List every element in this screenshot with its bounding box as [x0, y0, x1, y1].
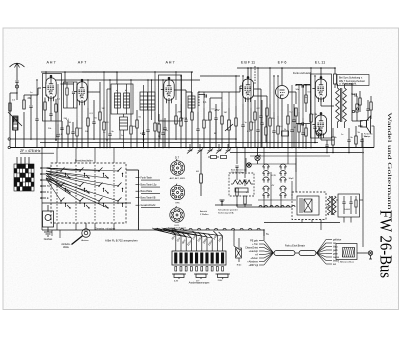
- svg-text:A F 7: A F 7: [78, 61, 87, 65]
- band table ticks: [17, 157, 29, 164]
- svg-text:1M: 1M: [79, 128, 82, 130]
- tone components right: [351, 91, 361, 112]
- bias network R2 C3: [45, 120, 75, 147]
- tube V4 EBF11: [239, 77, 253, 103]
- top feeder junctions: [36, 67, 315, 80]
- band table block: [14, 164, 34, 191]
- input coupling network: [9, 93, 18, 147]
- extra drop d3: [356, 96, 358, 121]
- legend note box: [337, 75, 369, 86]
- connector box: [336, 244, 357, 260]
- extra component X7: [146, 110, 149, 148]
- switch contacts: [60, 168, 123, 208]
- bandfilter box Bf1: [43, 74, 62, 122]
- svg-text:Antrieb: Antrieb: [200, 210, 208, 213]
- fuse symbols: [208, 156, 227, 159]
- IF transformer Bf2: [107, 84, 133, 147]
- wire top HT rail: [237, 67, 335, 69]
- svg-text:Erde: Erde: [237, 264, 242, 267]
- svg-text:E L 11: E L 11: [315, 61, 325, 65]
- psu line lugs: [259, 206, 295, 208]
- mid IF components: [106, 110, 166, 147]
- voltage divider resistor bank: [172, 251, 226, 265]
- tuning drive wheel: [72, 223, 91, 245]
- extra component X4: [103, 100, 105, 148]
- svg-text:Gemeins. mit achse: Gemeins. mit achse: [95, 227, 116, 230]
- left rail terminals: [8, 138, 10, 149]
- svg-text:6,3V: 6,3V: [174, 281, 179, 283]
- extra component X11: [196, 112, 199, 148]
- output stage box: [311, 74, 332, 138]
- svg-text:3 Wellen: 3 Wellen: [200, 214, 209, 216]
- components under V5: [282, 68, 297, 147]
- volume control and AF coupling: [199, 86, 243, 196]
- extra component X5: [108, 114, 111, 148]
- mains unit: [297, 196, 319, 215]
- svg-text:2x600: 2x600: [344, 209, 351, 211]
- junction dots: [41, 67, 364, 153]
- svg-text:6,3V: 6,3V: [257, 155, 262, 157]
- relay with meter: [43, 205, 54, 236]
- svg-text:EL11: EL11: [175, 225, 181, 227]
- switch solid bar: [42, 202, 131, 204]
- waveband switch box: [51, 163, 126, 223]
- components under V4: [248, 66, 263, 147]
- wire screen rail: [296, 84, 311, 86]
- svg-text:Buss.Platte: Buss.Platte: [141, 190, 153, 193]
- IF transformer Bf3: [140, 80, 155, 147]
- svg-text:Schutzleiter geerdet: Schutzleiter geerdet: [218, 209, 238, 212]
- dial lamp 2: [247, 163, 252, 168]
- ground brackets: [172, 274, 230, 279]
- svg-text:Netztast: Netztast: [44, 238, 53, 241]
- wire V1 to V2: [61, 72, 74, 84]
- heater sockets: [263, 164, 286, 198]
- svg-text:TA: TA: [47, 185, 50, 188]
- diode load resistors: [253, 96, 268, 147]
- svg-text:Funk-Taste: Funk-Taste: [141, 177, 153, 180]
- svg-text:E F 6: E F 6: [278, 61, 287, 65]
- plug lamp: [357, 251, 373, 259]
- extra component X25: [332, 128, 334, 153]
- tube socket diagram 3: [170, 206, 184, 222]
- svg-text:Funk und Hand: Funk und Hand: [293, 71, 311, 75]
- extra component X8: [154, 112, 156, 148]
- harness left fan: [259, 241, 274, 266]
- svg-text:6,3V: 6,3V: [272, 175, 277, 177]
- tuning capacitor gang: [187, 144, 231, 154]
- svg-text:Bereichsschalter: Bereichsschalter: [75, 160, 93, 163]
- extra component X12: [203, 108, 205, 148]
- detector coil: [188, 72, 195, 112]
- tube V7 EL11 lower: [312, 113, 326, 139]
- coupling caps to EL tubes: [296, 84, 310, 125]
- extra component X21: [301, 118, 304, 148]
- svg-text:2M: 2M: [28, 96, 32, 100]
- speaker network: [355, 126, 364, 147]
- extra component X1: [35, 95, 38, 147]
- earth wire row: [215, 200, 252, 206]
- svg-text:D.7: D.7: [175, 156, 180, 160]
- wire top rail 2: [55, 79, 200, 81]
- extra component X22: [310, 100, 312, 148]
- terminal column: [40, 167, 46, 199]
- tube V5 EF6: [276, 80, 289, 104]
- tube socket diagram 2: [170, 184, 184, 200]
- svg-text:Welle: Welle: [63, 247, 69, 249]
- svg-text:250V: 250V: [218, 280, 223, 282]
- power wiring: [235, 138, 363, 247]
- wire lower rail B: [250, 155, 330, 157]
- extra component X6: [130, 114, 132, 148]
- rail junction dots: [57, 142, 350, 154]
- wire top supply rail: [41, 71, 192, 73]
- phone jack: [282, 126, 323, 136]
- filter capacitor box: [338, 194, 360, 217]
- psu vertical stubs: [302, 217, 351, 223]
- tube socket diagram 1: [170, 159, 184, 175]
- svg-text:Antriebs-: Antriebs-: [61, 243, 70, 246]
- extra component X23: [313, 112, 316, 143]
- components under V1: [44, 98, 57, 122]
- psu bottom line: [264, 222, 340, 224]
- svg-text:+280 Vgl: +280 Vgl: [248, 264, 258, 267]
- switch right wiring: [136, 178, 140, 206]
- speaker feed wire: [372, 126, 375, 148]
- top feeder wires: [37, 68, 315, 124]
- antenna plug: [15, 85, 18, 88]
- speaker terminals: [352, 108, 358, 113]
- bandfilter box around V3: [159, 75, 182, 121]
- svg-text:Buss.Taste KB: Buss.Taste KB: [141, 197, 156, 200]
- svg-text:Sicherung 0,8 A: Sicherung 0,8 A: [218, 212, 234, 215]
- svg-text:Sockelschaltungen: Sockelschaltungen: [168, 227, 187, 230]
- extra component X20: [298, 112, 300, 148]
- terminal strip: [175, 267, 224, 272]
- extra component X17: [272, 112, 275, 148]
- wire lower rail A: [230, 152, 362, 154]
- heater rail segs: [246, 158, 296, 200]
- tube V6 EL11 upper: [312, 77, 326, 103]
- extra component X14: [250, 108, 252, 148]
- extra component X15: [256, 112, 259, 148]
- svg-text:D: D: [47, 191, 49, 194]
- svg-text:0,1: 0,1: [203, 101, 207, 104]
- svg-text:FW 26-Bus: FW 26-Bus: [377, 210, 396, 278]
- svg-text:A Bei R₂ B 702 ansprechen: A Bei R₂ B 702 ansprechen: [105, 239, 138, 243]
- switch bottom stubs: [57, 223, 114, 230]
- dial lamp 1: [255, 147, 260, 164]
- extra component X26: [347, 128, 350, 153]
- power transformer Tr2: [327, 196, 336, 215]
- switch diagonals row2: [46, 171, 118, 208]
- interstage filter box: [64, 82, 78, 108]
- svg-text:ZF = 478 kHz: ZF = 478 kHz: [20, 149, 41, 153]
- tube V2 AF7: [74, 79, 87, 105]
- tube V1 AH7: [43, 75, 56, 101]
- heater wires: [264, 147, 292, 207]
- wire Ta: [263, 229, 264, 236]
- antenna: [10, 63, 25, 94]
- svg-text:Lautspr.: Lautspr.: [364, 135, 371, 138]
- svg-text:4Ω: 4Ω: [196, 171, 199, 173]
- components under V3: [169, 90, 193, 147]
- grid resistors EL stage: [305, 85, 307, 147]
- svg-text:A H 7: A H 7: [46, 61, 55, 65]
- extra component X19: [290, 112, 293, 148]
- power supply dashed box: [292, 192, 326, 220]
- svg-text:u. Verst. anschl.: u. Verst. anschl.: [339, 83, 357, 86]
- svg-text:Gesamt-Drehz.: Gesamt-Drehz.: [141, 204, 157, 207]
- bus terminal lugs: [155, 228, 260, 230]
- svg-text:1M: 1M: [224, 112, 227, 114]
- harness right fan: [317, 240, 333, 265]
- tube V3 AH7b: [161, 77, 174, 103]
- extra component X28: [370, 96, 372, 119]
- extra component X16: [269, 104, 271, 148]
- switch wiring diagonals: [46, 168, 118, 201]
- extra component X3: [76, 120, 78, 148]
- switch feed elbow: [126, 170, 139, 230]
- components under V2: [82, 82, 101, 147]
- wire EL plates: [321, 68, 334, 140]
- svg-text:30μF: 30μF: [289, 178, 295, 180]
- extra drop d2: [265, 108, 267, 143]
- wire HT rail 2: [200, 75, 240, 77]
- svg-text:2M: 2M: [178, 112, 181, 114]
- switch contacts row2: [67, 175, 109, 209]
- wire switch common bus: [42, 229, 264, 231]
- svg-text:Abstimm: Abstimm: [81, 239, 89, 242]
- extra component X2: [56, 124, 59, 148]
- bank feed wires: [172, 231, 223, 251]
- extra component X24: [325, 140, 328, 153]
- wire bias rail: [40, 142, 318, 144]
- wire input to V1: [38, 88, 41, 95]
- wire AVC rail: [10, 138, 236, 140]
- long connection wires: [42, 148, 264, 251]
- antenna coil L1: [8, 95, 38, 147]
- svg-text:sw: sw: [333, 263, 336, 266]
- IF coil secondary: [120, 114, 128, 147]
- svg-text:Wandel und Goltermann: Wandel und Goltermann: [386, 113, 392, 211]
- svg-text:0,3M: 0,3M: [313, 114, 318, 116]
- bank fan wires: [152, 228, 223, 238]
- svg-text:110-240V Netz: 110-240V Netz: [231, 171, 244, 174]
- cable harness tube: [274, 251, 316, 256]
- output transformer Tr1: [334, 68, 353, 128]
- svg-text:-25V: -25V: [214, 108, 220, 112]
- mains plug hatched: [343, 248, 355, 258]
- svg-text:+ Netzanschluss: + Netzanschluss: [338, 261, 355, 264]
- switch label text lines: [141, 180, 160, 208]
- switch feed wires: [52, 120, 216, 238]
- switch bar dots: [60, 202, 119, 204]
- wire ground rail: [10, 147, 374, 149]
- extra component X13: [241, 104, 244, 148]
- harness left plug: [236, 238, 242, 262]
- svg-text:AH7, AF7, EB11: AH7, AF7, EB11: [170, 177, 187, 180]
- zf underline: [20, 152, 54, 154]
- svg-text:Farb.u.Einzl.Besatz: Farb.u.Einzl.Besatz: [285, 245, 306, 248]
- svg-text:A H 7: A H 7: [165, 61, 174, 65]
- svg-text:0,5M: 0,5M: [183, 118, 188, 120]
- loudspeaker LS: [352, 84, 371, 133]
- svg-text:Buss.Taste LSp: Buss.Taste LSp: [141, 184, 158, 187]
- mains dropper box: [229, 173, 254, 196]
- svg-text:E B F 11: E B F 11: [241, 61, 255, 65]
- extra component X27: [366, 100, 369, 121]
- extra component X18: [277, 116, 279, 148]
- extra component X9: [161, 118, 164, 148]
- switch shaft dashed lines: [57, 165, 114, 221]
- extra component X10: [180, 104, 182, 148]
- extra drop d1: [260, 100, 263, 148]
- wire V2 plate to IF1: [82, 72, 117, 84]
